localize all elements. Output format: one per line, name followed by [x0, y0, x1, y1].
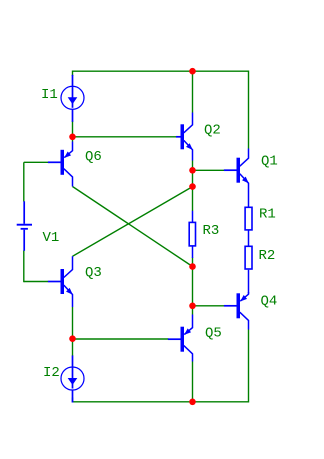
svg-text:R3: R3 — [203, 223, 220, 239]
svg-text:V1: V1 — [43, 230, 60, 246]
svg-text:Q6: Q6 — [85, 149, 102, 165]
svg-text:Q2: Q2 — [204, 123, 221, 139]
svg-text:Q4: Q4 — [261, 294, 278, 310]
svg-text:R1: R1 — [259, 207, 276, 223]
svg-text:Q3: Q3 — [85, 265, 102, 281]
svg-text:Q5: Q5 — [205, 326, 222, 342]
svg-text:Q1: Q1 — [261, 154, 278, 170]
svg-text:I1: I1 — [41, 87, 58, 103]
svg-text:R2: R2 — [259, 248, 276, 264]
svg-text:I2: I2 — [43, 365, 60, 381]
